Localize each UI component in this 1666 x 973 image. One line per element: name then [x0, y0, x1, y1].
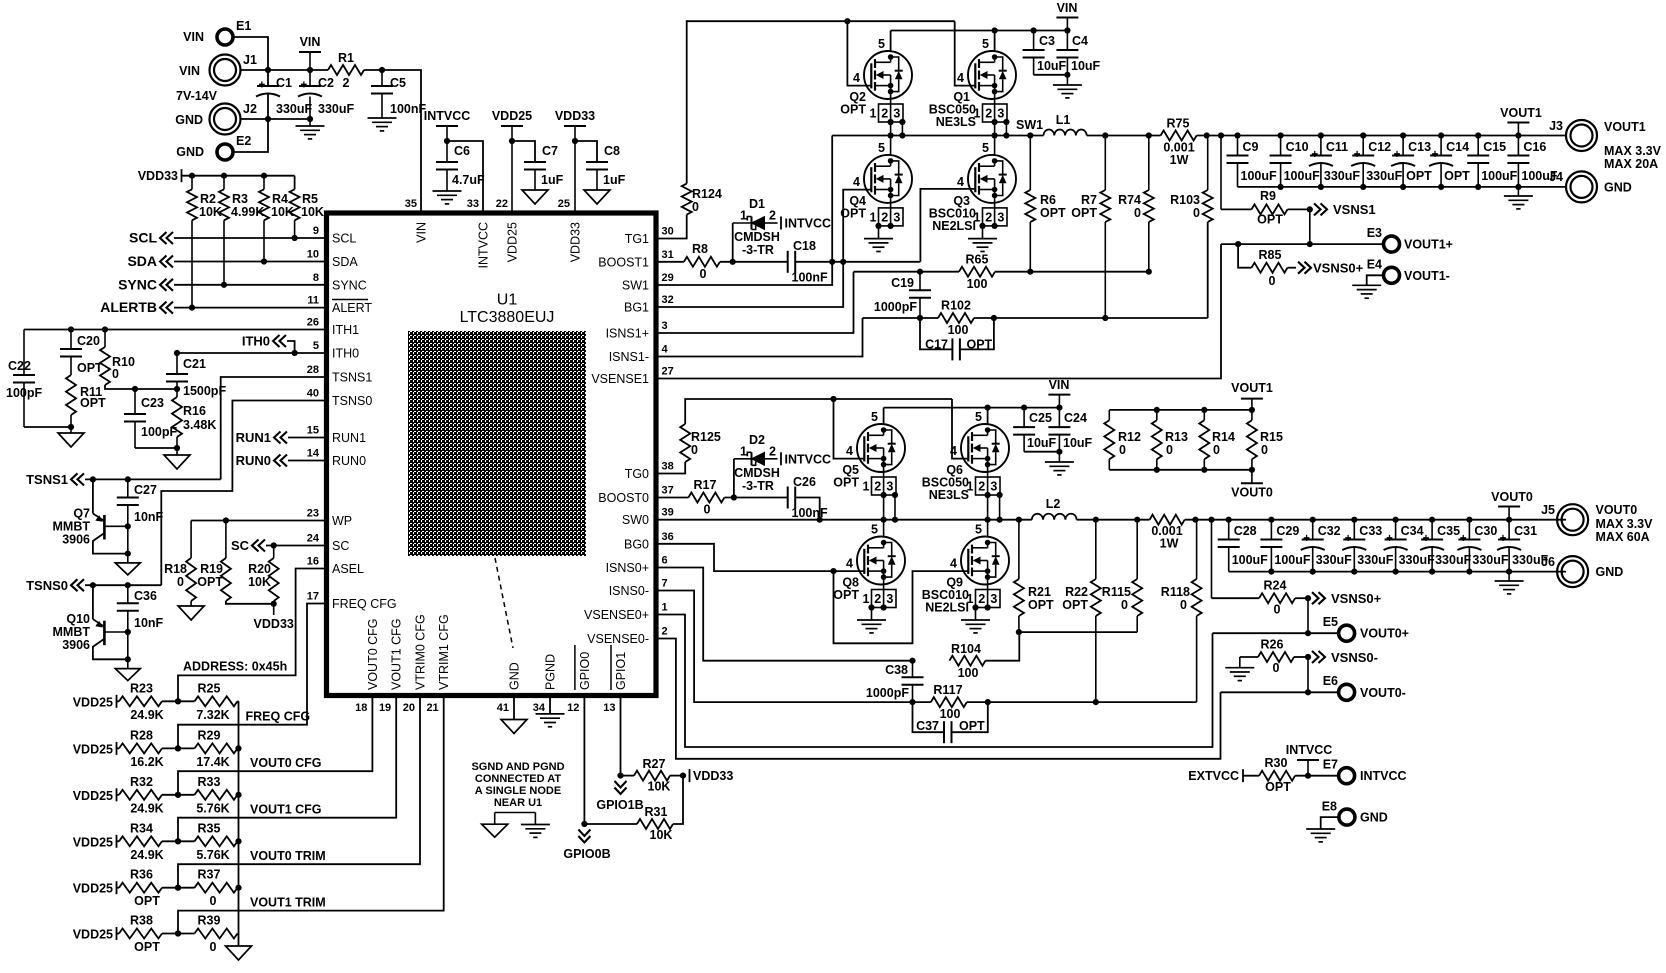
connector J2 [210, 104, 241, 135]
svg-text:5: 5 [313, 340, 319, 352]
wire C18 to SW BG [795, 261, 920, 263]
wire R65 out [995, 271, 1149, 273]
ground C6 [433, 190, 462, 192]
wire TSNS1 to pin28 [221, 377, 325, 479]
resistor R117 [931, 697, 967, 707]
svg-text:OPT: OPT [134, 940, 160, 954]
svg-text:27: 27 [662, 366, 674, 378]
svg-text:25: 25 [558, 198, 570, 210]
svg-text:R118: R118 [1161, 585, 1190, 599]
svg-text:R29: R29 [198, 728, 221, 742]
svg-text:TG0: TG0 [625, 467, 649, 481]
svg-text:SCL: SCL [129, 230, 157, 246]
wire Q3 drain [994, 136, 996, 155]
svg-text:-3-TR: -3-TR [742, 243, 774, 257]
wire R104 out [985, 632, 1019, 661]
svg-text:J2: J2 [243, 102, 257, 116]
wire row 3 [162, 840, 195, 842]
svg-text:4: 4 [950, 557, 957, 571]
svg-text:INTVCC: INTVCC [785, 452, 832, 466]
svg-text:0: 0 [210, 894, 217, 908]
ground R26 [1239, 657, 1241, 668]
svg-text:1: 1 [863, 480, 870, 494]
svg-text:R39: R39 [198, 914, 221, 928]
svg-text:330uF: 330uF [1435, 553, 1471, 567]
svg-text:VSENSE0-: VSENSE0- [587, 632, 649, 646]
svg-text:SDA: SDA [127, 253, 157, 269]
resistor R33 [195, 790, 238, 800]
svg-text:7.32K: 7.32K [196, 708, 229, 722]
transistor Q8 [857, 537, 905, 585]
capacitor C7 [524, 161, 546, 163]
resistor R23 [119, 696, 162, 706]
svg-text:C7: C7 [542, 144, 558, 158]
svg-text:VOUT1+: VOUT1+ [1404, 238, 1453, 252]
wire ISNS0- pin7 [656, 591, 931, 703]
capacitor C2 [309, 70, 311, 86]
svg-text:13: 13 [603, 702, 615, 714]
resistor R39 [195, 929, 238, 939]
svg-text:330uF: 330uF [1357, 553, 1393, 567]
resistor R22 [1095, 520, 1097, 579]
svg-text:VSNS0+: VSNS0+ [1313, 261, 1364, 276]
svg-text:21: 21 [426, 702, 438, 714]
node VSNS1 [1314, 203, 1321, 215]
svg-text:ISNS1+: ISNS1+ [606, 327, 649, 341]
wire TG0 top [685, 399, 952, 424]
capacitor C23 [134, 389, 136, 414]
svg-text:10K: 10K [248, 575, 271, 589]
svg-text:C18: C18 [793, 239, 816, 253]
svg-text:3906: 3906 [62, 533, 90, 547]
wire R17 to C26 [724, 497, 787, 499]
svg-text:SW0: SW0 [622, 513, 649, 527]
svg-text:TSNS1: TSNS1 [332, 371, 372, 385]
svg-text:+: + [1311, 149, 1318, 161]
svg-text:100nF: 100nF [792, 271, 828, 285]
node GPIO0B [581, 821, 587, 827]
capacitor C28 [1228, 520, 1230, 540]
svg-text:R16: R16 [183, 404, 206, 418]
svg-text:36: 36 [662, 531, 674, 543]
resistor R124 [682, 184, 692, 215]
wire Q2 source to SW [890, 122, 892, 136]
svg-text:VOUT0-: VOUT0- [1360, 686, 1406, 700]
svg-text:VTRIM1 CFG: VTRIM1 CFG [437, 614, 451, 690]
svg-text:+: + [1460, 533, 1467, 545]
resistor R37 [195, 883, 238, 893]
svg-text:2: 2 [881, 107, 888, 121]
svg-text:RUN0: RUN0 [236, 453, 271, 468]
wire TG1 [656, 215, 687, 239]
svg-text:VDD25: VDD25 [506, 222, 520, 262]
svg-text:R115: R115 [1102, 585, 1131, 599]
terminal E6 [1339, 684, 1355, 700]
wire ADDRESS to ASEL [178, 569, 325, 702]
svg-text:100uF: 100uF [1232, 553, 1268, 567]
capacitor C3 [1033, 31, 1035, 51]
svg-text:24.9K: 24.9K [130, 801, 163, 815]
resistor R20 [273, 546, 275, 559]
capacitor C5 [381, 70, 383, 86]
wire C3 C4 gnd [1034, 74, 1068, 76]
ground C24 [1045, 461, 1074, 463]
svg-text:ISNS0+: ISNS0+ [606, 561, 649, 575]
svg-text:100: 100 [948, 323, 969, 337]
wire row 1 [162, 747, 195, 749]
svg-text:ADDRESS: 0x45h: ADDRESS: 0x45h [183, 660, 287, 674]
svg-text:VOUT0 TRIM: VOUT0 TRIM [250, 849, 326, 863]
svg-text:-3-TR: -3-TR [742, 479, 774, 493]
capacitor C27 [127, 479, 129, 497]
svg-text:0: 0 [1273, 661, 1280, 675]
svg-text:J3: J3 [1549, 119, 1563, 133]
resistor R6 [1029, 136, 1031, 191]
ground Q10 [115, 669, 140, 681]
wire E6 line [1221, 691, 1339, 693]
svg-text:VIN: VIN [300, 35, 321, 49]
svg-text:C23: C23 [141, 396, 164, 410]
svg-text:C34: C34 [1401, 524, 1424, 538]
inductor L1 [1044, 129, 1087, 135]
svg-text:+: + [1394, 149, 1401, 161]
svg-text:MAX 20A: MAX 20A [1604, 157, 1658, 171]
ground config bus [226, 946, 252, 960]
svg-text:R74: R74 [1118, 193, 1141, 207]
svg-text:+: + [1500, 533, 1507, 545]
svg-text:MMBT: MMBT [53, 625, 91, 639]
svg-text:R103: R103 [1170, 193, 1200, 207]
svg-text:ISNS1-: ISNS1- [609, 350, 649, 364]
svg-text:41: 41 [497, 702, 509, 714]
svg-text:VOUT0 CFG: VOUT0 CFG [250, 756, 322, 770]
svg-text:R75: R75 [1167, 117, 1190, 131]
svg-text:INTVCC: INTVCC [785, 217, 832, 231]
wire BG1 pin32 [656, 190, 871, 307]
wire Q4 drain [890, 136, 892, 155]
wire bank bottom [1109, 469, 1252, 471]
svg-text:3: 3 [886, 480, 893, 494]
svg-text:VDD25: VDD25 [492, 109, 532, 123]
svg-text:E8: E8 [1322, 800, 1337, 814]
svg-text:0: 0 [210, 940, 217, 954]
wire R104 R21 join [1018, 632, 1020, 661]
svg-text:330uF: 330uF [1399, 553, 1435, 567]
resistor R25 [195, 696, 238, 706]
wire ISNS1+ pin3 [656, 272, 854, 333]
wire row 2 right [238, 794, 239, 796]
svg-text:5: 5 [982, 141, 989, 155]
svg-text:C9: C9 [1243, 140, 1259, 154]
svg-text:1uF: 1uF [541, 173, 564, 187]
svg-text:100uF: 100uF [1284, 169, 1320, 183]
svg-text:C5: C5 [390, 76, 406, 90]
svg-text:R15: R15 [1260, 430, 1283, 444]
wire ISNS1- pin4 [656, 318, 863, 357]
svg-text:15: 15 [307, 425, 319, 437]
resistor Rsense0 [1150, 515, 1185, 525]
wire R30 to E7 [1295, 775, 1339, 777]
svg-text:ALERTB: ALERTB [100, 299, 157, 315]
svg-text:VIN: VIN [179, 64, 200, 78]
svg-text:1: 1 [870, 107, 877, 121]
svg-text:3: 3 [990, 480, 997, 494]
svg-text:19: 19 [379, 702, 391, 714]
svg-text:0: 0 [691, 443, 698, 457]
svg-text:100: 100 [958, 666, 979, 680]
svg-text:OPT: OPT [197, 575, 223, 589]
svg-text:VDD25: VDD25 [73, 695, 113, 709]
svg-text:4: 4 [950, 444, 957, 458]
svg-text:24.9K: 24.9K [130, 708, 163, 722]
svg-text:40: 40 [307, 388, 319, 400]
ground R18 [178, 606, 204, 620]
svg-text:R30: R30 [1265, 756, 1288, 770]
svg-text:0: 0 [1166, 443, 1173, 457]
svg-text:GPIO0B: GPIO0B [563, 847, 610, 861]
svg-text:R23: R23 [130, 681, 153, 695]
svg-text:C21: C21 [183, 357, 206, 371]
svg-text:23: 23 [307, 508, 319, 520]
svg-text:VOUT0 CFG: VOUT0 CFG [366, 618, 380, 690]
svg-text:10K: 10K [301, 205, 324, 219]
terminal E1 [217, 29, 233, 45]
svg-text:R3: R3 [232, 192, 248, 206]
svg-text:C17: C17 [925, 338, 948, 352]
svg-text:L1: L1 [1056, 113, 1071, 127]
transistor Q4 [864, 155, 912, 203]
svg-text:C12: C12 [1368, 140, 1391, 154]
svg-text:VDD33: VDD33 [693, 769, 733, 783]
svg-text:SYNC: SYNC [118, 276, 157, 292]
svg-text:MAX 3.3V: MAX 3.3V [1604, 144, 1662, 158]
wire E3 line [1221, 243, 1384, 245]
svg-text:24: 24 [307, 533, 320, 545]
svg-text:C6: C6 [454, 144, 470, 158]
wire ITH1 line [24, 329, 325, 331]
resistor R7 [1104, 136, 1106, 191]
svg-text:C22: C22 [8, 359, 31, 373]
transistor Q5 [857, 424, 905, 472]
wire Q9 gnd [972, 604, 978, 610]
svg-text:C8: C8 [604, 144, 620, 158]
wire VSENSE0- pin2 [656, 639, 1221, 759]
wire VOUT1 TRIM [178, 696, 444, 934]
wire SW1 line [832, 135, 1043, 137]
svg-text:2: 2 [881, 210, 888, 224]
svg-text:SC: SC [231, 538, 250, 553]
svg-text:VOUT1-: VOUT1- [1404, 269, 1450, 283]
capacitor C20 [70, 330, 72, 350]
svg-text:C30: C30 [1474, 524, 1497, 538]
wire row 2 [162, 794, 195, 796]
wire Q4 gnd [875, 223, 881, 229]
svg-text:5: 5 [878, 37, 885, 51]
svg-text:E6: E6 [1323, 674, 1338, 688]
svg-text:VDD33: VDD33 [555, 109, 595, 123]
svg-text:R19: R19 [200, 562, 223, 576]
svg-text:1uF: 1uF [603, 173, 626, 187]
svg-text:VDD33: VDD33 [254, 617, 294, 631]
svg-text:7: 7 [662, 578, 668, 590]
node VSNS0- ch0 [1312, 651, 1319, 663]
wire TG0 to Q6 gate [952, 399, 968, 459]
svg-text:4: 4 [846, 557, 853, 571]
wire VDD25 to C7 [512, 141, 535, 162]
wire WP line [191, 520, 325, 522]
ground R16 [164, 455, 190, 469]
capacitor C21 [176, 353, 178, 374]
wire R75 out [1197, 135, 1566, 137]
svg-text:CMDSH: CMDSH [734, 230, 780, 244]
resistor R12 [1108, 410, 1110, 420]
capacitor C11 [1320, 136, 1322, 156]
resistor R5 [294, 176, 296, 190]
svg-text:C19: C19 [891, 276, 914, 290]
svg-text:2: 2 [985, 210, 992, 224]
svg-text:E7: E7 [1323, 758, 1338, 772]
ground Q4 [864, 238, 893, 240]
resistor R115 [1136, 520, 1138, 579]
wire Q8 drain [883, 520, 885, 537]
wire E5 line [1213, 632, 1339, 634]
svg-text:R34: R34 [130, 821, 153, 835]
svg-text:37: 37 [662, 485, 674, 497]
svg-text:C3: C3 [1039, 34, 1055, 48]
svg-text:+: + [1303, 533, 1310, 545]
svg-text:VSENSE0+: VSENSE0+ [584, 608, 649, 622]
capacitor C35 [1431, 520, 1433, 540]
resistor R118 [1196, 520, 1198, 579]
U1 exposed pad hatch [408, 331, 586, 556]
terminal E8 [1339, 809, 1355, 825]
connector J3 [1566, 120, 1597, 151]
wire VIN rail ch1 [890, 31, 892, 52]
svg-text:C26: C26 [793, 475, 816, 489]
svg-text:R4: R4 [272, 192, 288, 206]
svg-text:VDD25: VDD25 [73, 928, 113, 942]
svg-text:NEAR U1: NEAR U1 [494, 797, 542, 809]
wire TSNS0 to pin40 [161, 401, 325, 586]
power flag VIN ch0 [1048, 394, 1070, 396]
svg-text:R36: R36 [130, 868, 153, 882]
svg-text:CONNECTED AT: CONNECTED AT [475, 773, 561, 785]
node GPIO1B [617, 773, 623, 779]
svg-text:D1: D1 [749, 197, 765, 211]
terminal E4 [1384, 267, 1400, 283]
transistor Q3 [968, 155, 1016, 203]
capacitor C22 [23, 330, 25, 376]
svg-text:1: 1 [870, 210, 877, 224]
svg-text:R14: R14 [1212, 430, 1235, 444]
svg-text:28: 28 [307, 364, 319, 376]
wire Q1 source to SW [994, 122, 996, 136]
svg-text:C14: C14 [1446, 140, 1469, 154]
svg-text:OPT: OPT [1071, 206, 1097, 220]
svg-text:SC: SC [332, 539, 349, 553]
svg-text:10K: 10K [650, 828, 673, 842]
capacitor C12 [1362, 136, 1364, 156]
svg-text:TSNS0: TSNS0 [332, 394, 372, 408]
svg-text:SGND AND PGND: SGND AND PGND [471, 761, 564, 773]
resistor R15 [1251, 410, 1253, 420]
ground ch0 rail [1508, 572, 1510, 581]
svg-text:VTRIM0 CFG: VTRIM0 CFG [414, 614, 428, 690]
svg-text:1: 1 [662, 602, 668, 614]
svg-text:C11: C11 [1326, 140, 1348, 154]
svg-text:10K: 10K [648, 780, 671, 794]
svg-text:3: 3 [997, 107, 1004, 121]
svg-text:C37: C37 [916, 719, 939, 733]
wire row 1 right [238, 747, 239, 749]
svg-text:R102: R102 [941, 299, 971, 313]
svg-text:C24: C24 [1064, 411, 1087, 425]
svg-text:U1: U1 [497, 291, 518, 308]
svg-text:L2: L2 [1046, 497, 1061, 511]
svg-text:TSNS0: TSNS0 [26, 578, 68, 593]
svg-text:12: 12 [567, 702, 579, 714]
svg-text:0: 0 [1134, 206, 1141, 220]
svg-text:100: 100 [967, 277, 988, 291]
resistor R18 [190, 521, 192, 559]
svg-text:6: 6 [662, 555, 668, 567]
resistor R35 [195, 836, 238, 846]
svg-text:C31: C31 [1514, 524, 1537, 538]
U1 pad dashed lead [495, 558, 513, 648]
svg-text:GND: GND [508, 662, 522, 690]
svg-text:R8: R8 [692, 242, 708, 256]
transistor Q2 [864, 51, 912, 99]
node VDD33 R27 [689, 769, 691, 782]
diode D1 [732, 223, 734, 262]
svg-text:R38: R38 [130, 914, 153, 928]
power flag VOUT1 ch1 [1507, 122, 1529, 124]
svg-text:R1: R1 [338, 51, 354, 65]
resistor R17 [688, 493, 724, 503]
svg-text:C36: C36 [134, 589, 157, 603]
connector J4 [1566, 171, 1597, 202]
svg-text:3: 3 [662, 320, 668, 332]
svg-text:1W: 1W [1160, 537, 1179, 551]
svg-text:1: 1 [740, 209, 747, 223]
svg-text:OPT: OPT [1062, 598, 1088, 612]
svg-text:C28: C28 [1234, 524, 1257, 538]
svg-text:OPT: OPT [833, 588, 859, 602]
svg-text:MAX 60A: MAX 60A [1596, 530, 1650, 544]
wire ISNS0+ pin6 [656, 568, 913, 661]
svg-text:C20: C20 [77, 334, 100, 348]
power flag INTVCC E7 [1307, 760, 1309, 776]
svg-text:OPT: OPT [1265, 780, 1291, 794]
svg-text:MAX 3.3V: MAX 3.3V [1596, 517, 1654, 531]
svg-text:FREQ CFG: FREQ CFG [332, 597, 397, 611]
svg-text:R9: R9 [1260, 189, 1276, 203]
svg-text:31: 31 [662, 249, 674, 261]
svg-text:RUN1: RUN1 [332, 431, 366, 445]
wire L2 out [1077, 519, 1150, 521]
svg-text:5: 5 [871, 523, 878, 537]
svg-text:2: 2 [769, 209, 776, 223]
svg-text:3: 3 [990, 592, 997, 606]
svg-text:GPIO1: GPIO1 [614, 652, 628, 690]
svg-text:GND: GND [1360, 811, 1388, 825]
resistor R104 [949, 656, 985, 666]
resistor R3 [223, 176, 225, 190]
svg-text:10: 10 [307, 249, 319, 261]
svg-text:2: 2 [985, 107, 992, 121]
svg-text:R25: R25 [198, 681, 221, 695]
svg-text:C10: C10 [1286, 140, 1309, 154]
